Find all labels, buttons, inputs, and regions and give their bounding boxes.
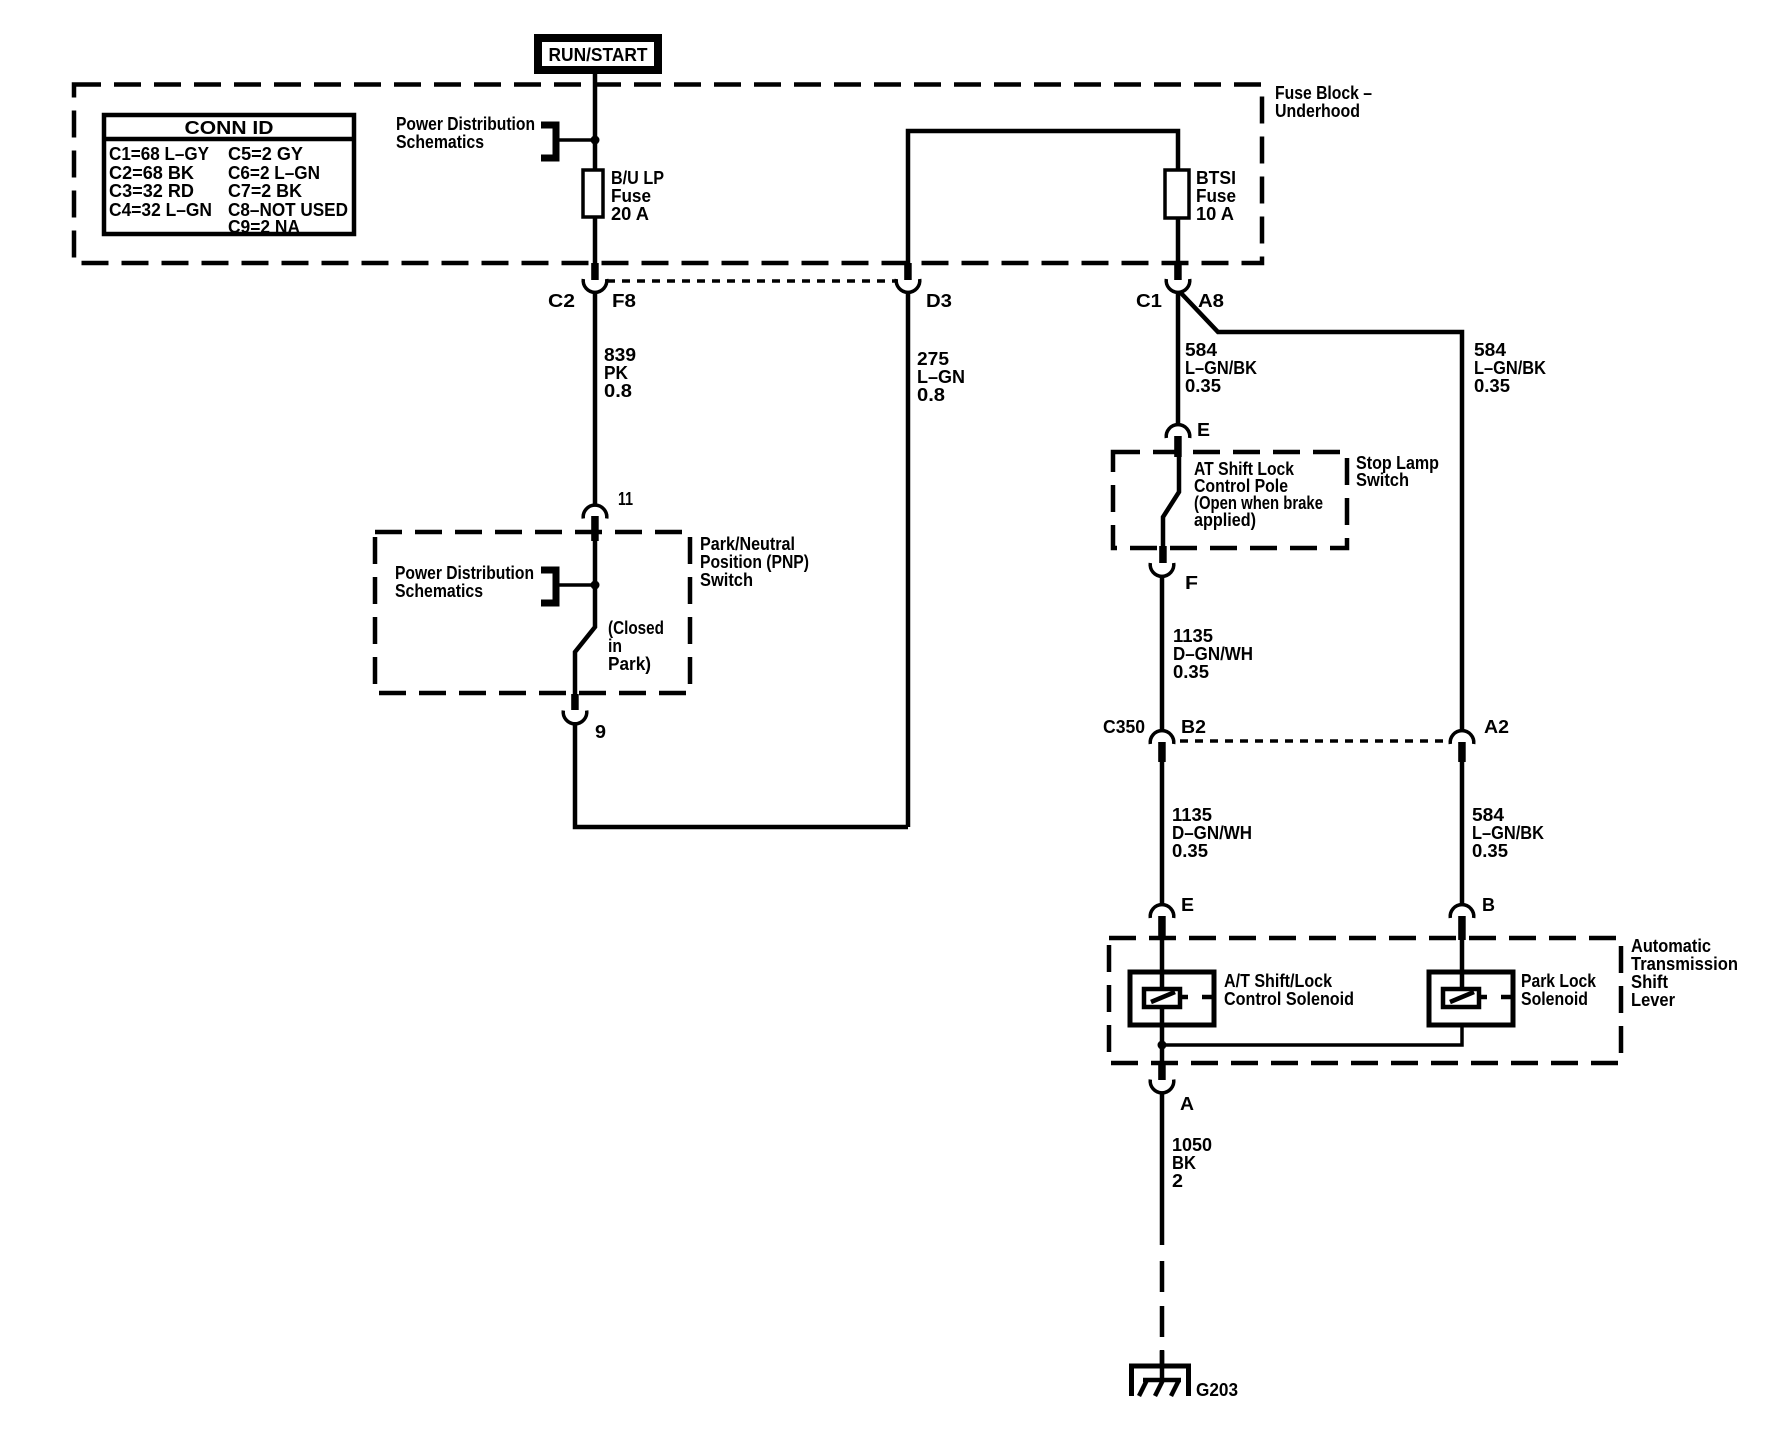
svg-text:275: 275 xyxy=(917,349,949,369)
svg-text:1135: 1135 xyxy=(1173,626,1213,646)
svg-text:Control Solenoid: Control Solenoid xyxy=(1224,989,1354,1009)
svg-text:Power Distribution: Power Distribution xyxy=(396,114,535,134)
svg-text:Fuse Block –: Fuse Block – xyxy=(1275,83,1372,103)
svg-text:Solenoid: Solenoid xyxy=(1521,989,1588,1009)
svg-text:L–GN/BK: L–GN/BK xyxy=(1474,358,1546,378)
svg-text:Park Lock: Park Lock xyxy=(1521,971,1597,991)
svg-text:G203: G203 xyxy=(1196,1380,1238,1400)
svg-text:D–GN/WH: D–GN/WH xyxy=(1173,644,1253,664)
svg-text:E: E xyxy=(1181,895,1194,915)
svg-text:C7=2 BK: C7=2 BK xyxy=(228,181,302,201)
connector F below stop lamp switch (pin stub and socket) xyxy=(1150,546,1198,593)
stop lamp switch dashed box xyxy=(1113,452,1347,548)
svg-text:A: A xyxy=(1180,1094,1194,1114)
junction wire joining solenoids xyxy=(1158,1025,1463,1064)
svg-text:A8: A8 xyxy=(1198,291,1224,311)
svg-text:C3=32 RD: C3=32 RD xyxy=(109,181,194,201)
svg-text:A2: A2 xyxy=(1484,717,1509,737)
svg-text:B: B xyxy=(1482,895,1495,915)
wire 839 PK xyxy=(595,291,636,506)
svg-text:Position (PNP): Position (PNP) xyxy=(700,552,809,572)
PNP switch label xyxy=(700,534,809,590)
connector A below shift lever box (pin stub and socket) xyxy=(1150,1064,1194,1114)
wire BTSI fuse to C1 xyxy=(1176,218,1181,264)
svg-text:RUN/START: RUN/START xyxy=(549,45,648,65)
connector C2 F8 (pin stub and socket) xyxy=(548,263,636,311)
svg-text:C9=2 NA: C9=2 NA xyxy=(228,217,300,237)
svg-text:(Closed: (Closed xyxy=(608,618,664,638)
park lock solenoid xyxy=(1429,940,1597,1025)
AT shift lock control pole (switch blade) xyxy=(1163,456,1323,547)
svg-text:Schematics: Schematics xyxy=(395,581,483,601)
svg-text:9: 9 xyxy=(595,722,606,742)
svg-text:0.35: 0.35 xyxy=(1185,376,1221,396)
label 584 L-GN/BK right branch xyxy=(1474,340,1546,396)
svg-text:Fuse: Fuse xyxy=(611,186,651,206)
svg-text:D3: D3 xyxy=(926,291,952,311)
svg-text:C4=32 L–GN: C4=32 L–GN xyxy=(109,200,212,220)
connector C350 B2 (socket dome and pin) xyxy=(1103,717,1206,762)
svg-text:C1: C1 xyxy=(1136,291,1162,311)
svg-text:C2: C2 xyxy=(548,291,575,311)
svg-text:L–GN/BK: L–GN/BK xyxy=(1472,823,1544,843)
svg-text:2: 2 xyxy=(1172,1171,1183,1191)
svg-text:0.8: 0.8 xyxy=(604,381,632,401)
stop lamp switch label xyxy=(1356,453,1439,490)
CONN ID table xyxy=(104,115,354,237)
fuse BTSI 10A xyxy=(1165,168,1236,224)
svg-text:C5=2 GY: C5=2 GY xyxy=(228,144,303,164)
svg-text:F8: F8 xyxy=(612,291,636,311)
fuse block - underhood dashed box xyxy=(74,85,1262,264)
connector E into stop lamp switch (socket dome and pin) xyxy=(1166,420,1210,457)
svg-text:BK: BK xyxy=(1172,1153,1196,1173)
svg-text:584: 584 xyxy=(1185,340,1217,360)
wire 584 L-GN/BK from A2 to B xyxy=(1462,762,1544,905)
dashed wire to ground xyxy=(1160,1261,1165,1366)
svg-text:PK: PK xyxy=(604,363,628,383)
connector C350 A2 (socket dome and pin) xyxy=(1450,717,1509,762)
svg-text:F: F xyxy=(1185,573,1198,593)
connector C1 A8 (pin stub and socket) xyxy=(1136,263,1224,311)
wire 584 L-GN/BK from C1 down to stop lamp switch xyxy=(1178,291,1257,425)
svg-text:Underhood: Underhood xyxy=(1275,101,1360,121)
svg-text:0.35: 0.35 xyxy=(1173,662,1209,682)
wire from PNP switch connector 9 joining 275 wire xyxy=(575,722,908,827)
wire 1135 D-GN/WH from F to B2 xyxy=(1162,575,1253,731)
connector B into shift lever box (socket dome and pin) xyxy=(1450,895,1495,940)
svg-text:BTSI: BTSI xyxy=(1196,168,1236,188)
svg-text:20 A: 20 A xyxy=(611,204,649,224)
wire 275 L-GN from D3 xyxy=(908,291,965,827)
connector 9 below PNP switch (pin stub and socket) xyxy=(563,694,606,742)
wire 1135 D-GN/WH from B2 to E xyxy=(1162,762,1252,905)
shift lever label xyxy=(1631,936,1738,1010)
svg-text:Fuse: Fuse xyxy=(1196,186,1236,206)
power distribution schematics reference (top) xyxy=(396,114,600,158)
svg-text:L–GN: L–GN xyxy=(917,367,965,387)
svg-text:0.35: 0.35 xyxy=(1474,376,1510,396)
svg-text:839: 839 xyxy=(604,345,636,365)
power distribution schematics reference (in PNP box) xyxy=(395,563,600,603)
connector 11 into PNP switch (socket dome and pin) xyxy=(583,489,633,541)
dotted same-connector line B2 to A2 xyxy=(1180,739,1449,743)
svg-text:L–GN/BK: L–GN/BK xyxy=(1185,358,1257,378)
svg-text:C6=2 L–GN: C6=2 L–GN xyxy=(228,163,320,183)
svg-text:Shift: Shift xyxy=(1631,972,1668,992)
svg-text:0.8: 0.8 xyxy=(917,385,945,405)
wire from RUN/START to B/U LP fuse xyxy=(593,74,598,170)
power feed box RUN/START xyxy=(538,38,658,70)
svg-text:CONN ID: CONN ID xyxy=(185,118,274,138)
svg-text:C2=68 BK: C2=68 BK xyxy=(109,163,194,183)
fuse B/U LP 20A xyxy=(583,168,664,224)
svg-text:Transmission: Transmission xyxy=(1631,954,1738,974)
svg-text:11: 11 xyxy=(618,489,633,509)
A/T shift/lock control solenoid xyxy=(1130,940,1354,1045)
svg-text:E: E xyxy=(1197,420,1210,440)
svg-text:Park): Park) xyxy=(608,654,651,674)
PNP switch pole (closed in park) xyxy=(575,541,664,694)
wire 1050 BK 2 xyxy=(1162,1092,1212,1245)
automatic transmission shift lever dashed box xyxy=(1109,938,1621,1063)
svg-text:Switch: Switch xyxy=(700,570,753,590)
svg-text:1135: 1135 xyxy=(1172,805,1212,825)
svg-text:0.35: 0.35 xyxy=(1172,841,1208,861)
svg-text:10 A: 10 A xyxy=(1196,204,1234,224)
ground G203 xyxy=(1129,1350,1238,1400)
right feed wire from fuse block top to BTSI fuse xyxy=(908,131,1178,263)
svg-text:in: in xyxy=(608,636,622,656)
svg-text:Switch: Switch xyxy=(1356,470,1409,490)
svg-text:1050: 1050 xyxy=(1172,1135,1212,1155)
svg-text:B2: B2 xyxy=(1181,717,1206,737)
dotted same-connector line C2 to D3 xyxy=(607,279,897,283)
svg-text:C350: C350 xyxy=(1103,717,1145,737)
svg-text:D–GN/WH: D–GN/WH xyxy=(1172,823,1252,843)
svg-text:Lever: Lever xyxy=(1631,990,1675,1010)
svg-text:C1=68 L–GY: C1=68 L–GY xyxy=(109,144,209,164)
svg-text:Automatic: Automatic xyxy=(1631,936,1711,956)
svg-text:Park/Neutral: Park/Neutral xyxy=(700,534,795,554)
svg-text:applied): applied) xyxy=(1194,510,1256,530)
svg-text:584: 584 xyxy=(1472,805,1504,825)
connector D3 (pin stub and socket) xyxy=(896,263,952,311)
wire from fuse to C2 xyxy=(593,217,598,264)
svg-text:Schematics: Schematics xyxy=(396,132,484,152)
svg-text:Power Distribution: Power Distribution xyxy=(395,563,534,583)
svg-text:B/U LP: B/U LP xyxy=(611,168,664,188)
park/neutral position switch dashed box xyxy=(375,532,690,693)
connector E into shift lever box (socket dome and pin) xyxy=(1150,895,1194,940)
fuse block label text xyxy=(1275,83,1372,121)
svg-text:584: 584 xyxy=(1474,340,1506,360)
svg-text:A/T Shift/Lock: A/T Shift/Lock xyxy=(1224,971,1333,991)
svg-text:0.35: 0.35 xyxy=(1472,841,1508,861)
branch wire from C1 to right 584 branch xyxy=(1180,292,1462,731)
